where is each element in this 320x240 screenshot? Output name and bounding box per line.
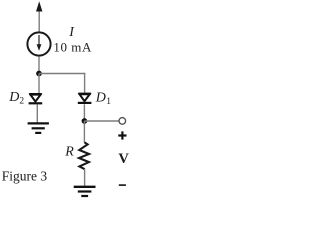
- svg-text:I: I: [68, 25, 75, 40]
- label D2: [8, 90, 24, 106]
- wire: D2 to ground: [36, 104, 38, 122]
- wire: D1 to node: [83, 104, 85, 121]
- diode D2: [29, 94, 43, 103]
- current source I: [27, 32, 50, 55]
- resistor R: [79, 142, 89, 169]
- node junction dot (top): [36, 71, 42, 77]
- wire: horizontal top: [39, 73, 85, 75]
- wire: down to D1: [84, 73, 86, 94]
- current direction arrow (top): [36, 1, 42, 31]
- svg-text:10 mA: 10 mA: [53, 40, 92, 55]
- label D1: [95, 90, 111, 107]
- svg-text:D: D: [95, 90, 106, 105]
- svg-text:Figure 3: Figure 3: [2, 168, 48, 183]
- svg-text:R: R: [64, 145, 74, 160]
- svg-text:D: D: [8, 90, 19, 105]
- wire: source to junction: [38, 57, 40, 74]
- ground (left): [28, 123, 49, 132]
- svg-text:V: V: [118, 151, 129, 167]
- diode D1: [78, 94, 92, 103]
- wire: junction to D2: [38, 74, 40, 94]
- node junction dot (output): [82, 118, 88, 124]
- wire: node to terminal: [84, 120, 118, 122]
- label minus: [119, 184, 126, 186]
- ground (bottom): [74, 187, 96, 196]
- svg-text:2: 2: [19, 97, 24, 107]
- svg-text:1: 1: [106, 97, 111, 107]
- label +: [118, 131, 126, 139]
- output terminal (open circle): [119, 118, 126, 125]
- wire: node to resistor: [83, 121, 85, 143]
- wire: resistor to ground: [84, 169, 86, 186]
